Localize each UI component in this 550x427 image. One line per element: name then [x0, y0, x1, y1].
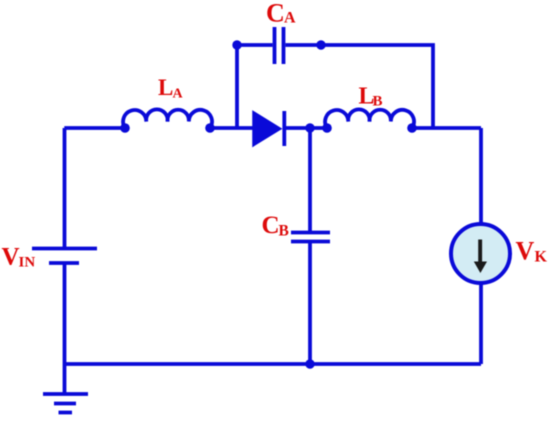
svg-text:IN: IN — [19, 255, 36, 271]
svg-text:C: C — [262, 212, 280, 239]
svg-text:K: K — [535, 249, 548, 266]
svg-text:C: C — [266, 0, 285, 28]
svg-text:B: B — [279, 223, 289, 240]
svg-text:B: B — [373, 94, 383, 110]
svg-text:A: A — [284, 10, 296, 27]
svg-text:V: V — [2, 244, 20, 271]
svg-text:A: A — [173, 87, 184, 102]
svg-text:L: L — [158, 75, 173, 100]
svg-text:V: V — [516, 237, 535, 266]
